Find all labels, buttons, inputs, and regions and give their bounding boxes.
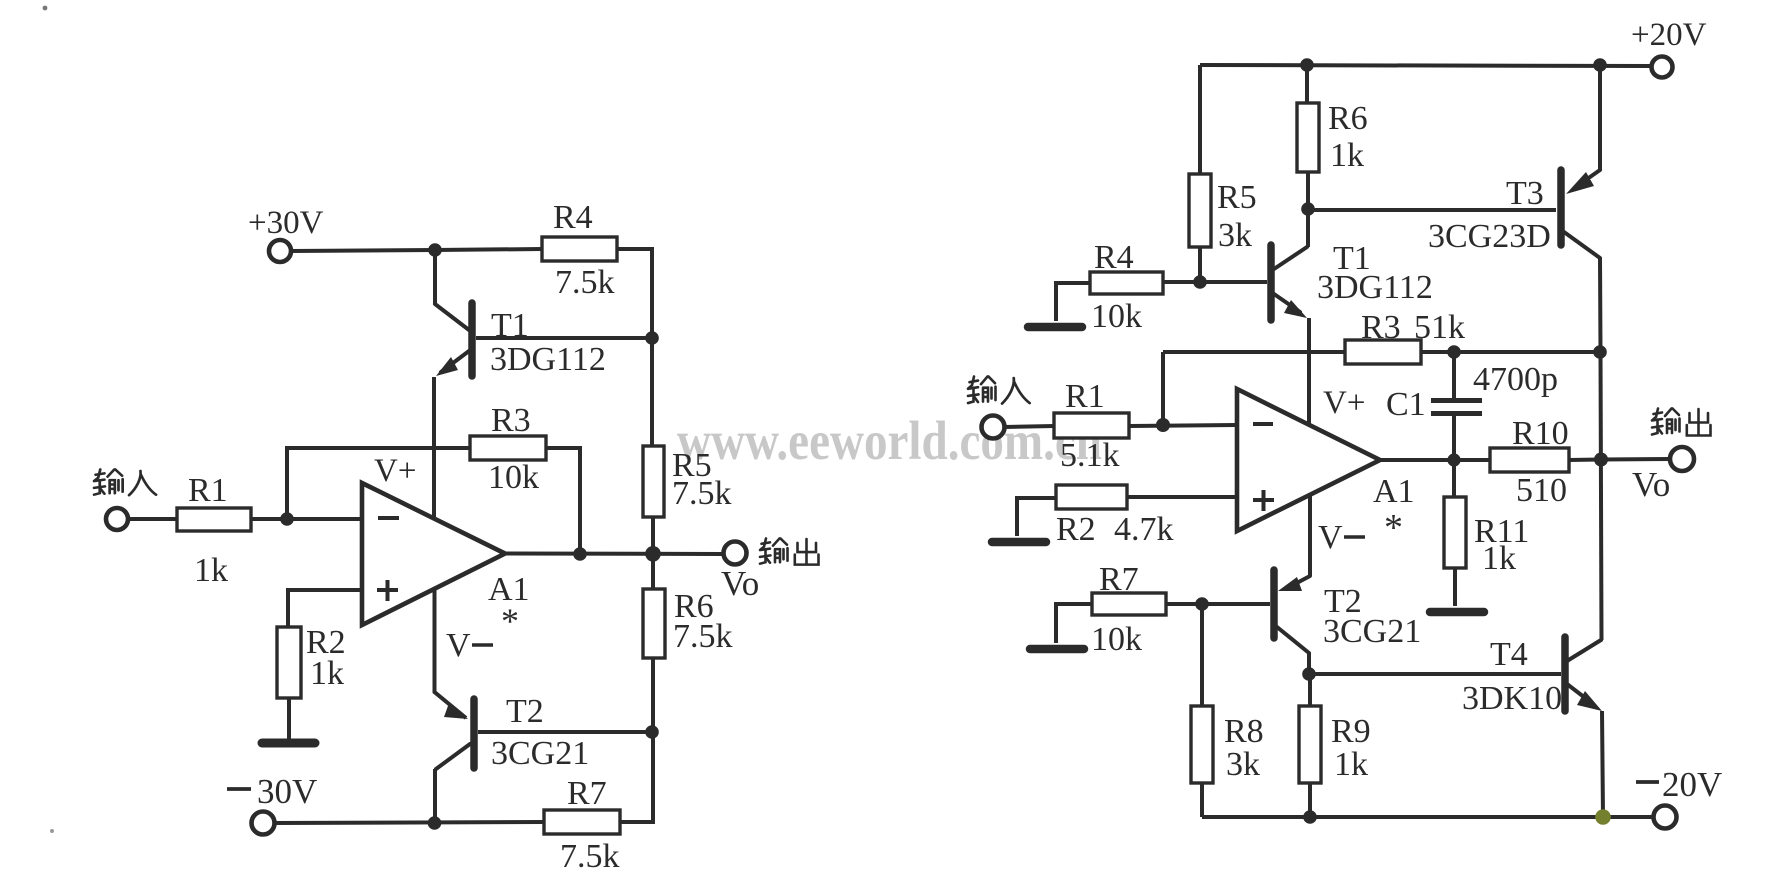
wire T2 base [478,730,652,734]
node junction R6 / T3 base / T1 collector [1301,202,1315,216]
svg-text:V+: V+ [374,453,416,489]
wire R7 to right vertical up [620,732,653,822]
svg-text:R10: R10 [1512,415,1569,452]
wire T1 collector up [1306,209,1310,247]
transistor T1 collector diagonal [435,304,469,330]
input terminal (left) [106,508,128,530]
wire R7 left to ground [1056,604,1092,643]
transistor T2 emitter arrowhead [444,703,468,719]
transistor T4 emitter arrowhead [1577,691,1602,711]
wire T4 emitter to -20V rail [1602,711,1603,817]
svg-text:7.5k: 7.5k [672,475,732,512]
svg-text:4700p: 4700p [1473,361,1558,398]
svg-text:20V: 20V [1662,765,1722,804]
wire R10 to output terminal [1569,459,1670,460]
wire +20V to T3 emitter [1598,65,1602,170]
svg-text:10k: 10k [1091,621,1142,658]
svg-text:*: * [501,601,519,641]
svg-text:R2: R2 [1056,511,1096,548]
svg-text:R7: R7 [567,775,607,812]
wire R4 to right vertical [617,249,652,338]
resistor R7 (left) [544,810,620,834]
node junction inverting input (right) [1156,418,1170,432]
node junction T2 base / R7 / R8 [1195,597,1209,611]
wire -30V rail [274,822,544,823]
wire T3 base [1308,208,1556,212]
wire rail down to R5 [1198,65,1202,174]
svg-text:R3: R3 [491,402,531,439]
resistor R2 (right) [1056,485,1127,509]
svg-text:R7: R7 [1099,561,1139,598]
terminal -20V [1654,806,1677,829]
op-amp plus sign (right) [1253,490,1274,511]
svg-text:1k: 1k [1334,746,1368,783]
ground (left R2) [262,739,315,748]
wire op-amp output (right) [1380,458,1490,462]
ground (right R2) [992,538,1046,547]
resistor R6 (left) [643,589,665,658]
svg-text:3CG23D: 3CG23D [1428,218,1551,255]
svg-text:Vo: Vo [1632,465,1670,504]
svg-text:10k: 10k [1091,298,1142,335]
svg-text:3DG112: 3DG112 [490,341,606,378]
wire R4 left to ground [1056,283,1090,321]
node 输入 input label (left) [94,469,156,495]
resistor R10 [1490,448,1569,472]
svg-text:*: * [1384,507,1403,549]
resistor R4 (right) [1090,272,1163,294]
input terminal (right) [982,416,1005,439]
wire input to R1 [128,517,177,521]
wire T2 collector to -30V rail [433,769,437,823]
wire T4 base [1309,672,1561,676]
resistor R1 (left) [177,508,251,531]
svg-text:T2: T2 [506,693,544,730]
node junction R9 on rail [1303,810,1317,824]
label -20V dash [1636,780,1659,784]
wire T3 collector to T4 collector vertical [1601,352,1602,640]
svg-text:R8: R8 [1224,713,1264,750]
ground (R11) [1430,608,1484,617]
transistor T1 emitter arrowhead [436,357,458,376]
node junction T2 collector / T4 base / R9 [1302,667,1316,681]
wire R1 to inverting input [251,517,362,521]
op-amp A1 (left) [362,483,505,625]
svg-text:R3: R3 [1361,309,1401,346]
wire + input from R2 (right) [1127,495,1237,499]
resistor R5 (right) [1189,174,1211,247]
wire V- pin [435,590,467,718]
svg-text:R4: R4 [1094,239,1134,276]
wire R6 to T2 base junction [651,658,655,732]
node 输入 input label (right) [968,377,1030,404]
capacitor C1 stem top [1452,352,1456,398]
node junction T2 base [645,725,659,739]
pin label V- dash (right) [1344,535,1365,539]
node 输出 output label (left) [760,538,819,564]
resistor R8 [1191,706,1213,783]
wire op-amp output [505,552,723,557]
node junction output / C1 / R11 [1447,453,1460,466]
wire +30V terminal to junction [291,250,435,251]
transistor T1 (left) bar [468,303,476,376]
svg-text:Vo: Vo [721,564,759,603]
wire R8 stem bottom [1200,783,1204,817]
transistor T3 bar [1557,170,1565,245]
ground (right R7) [1030,645,1084,654]
svg-text:www.eeworld.com.cn: www.eeworld.com.cn [677,410,1102,471]
svg-text:V: V [1318,519,1343,556]
svg-text:T3: T3 [1506,175,1544,212]
transistor T2 (right) bar [1270,570,1278,638]
svg-text:1k: 1k [1482,540,1516,577]
wire T2 collector down [1307,653,1311,675]
svg-text:+30V: +30V [248,205,324,241]
terminal output (left) [724,542,747,565]
wire R2 to ground [287,698,291,740]
svg-text:1k: 1k [310,655,344,692]
terminal output (right) [1670,447,1694,471]
transistor T3 emitter diagonal [1590,170,1600,177]
svg-text:3DK10: 3DK10 [1462,680,1562,717]
wire junction to R5 [650,338,654,446]
node junction rail T3 emitter [1593,58,1607,72]
svg-text:1k: 1k [1330,137,1364,174]
transistor T2 emitter arrowhead (right) [1278,577,1302,591]
svg-text:51k: 51k [1414,309,1465,346]
transistor T4 bar [1561,637,1569,711]
resistor R2 (left) [277,627,301,698]
svg-text:3k: 3k [1226,746,1260,783]
wire R6 to T3 base junction [1306,172,1310,209]
wire V- pin (right) [1293,495,1310,585]
resistor R3 (left) [470,436,546,460]
wire R9 stem top [1308,674,1312,706]
wire R8 stem top [1200,604,1204,706]
op-amp plus sign [377,580,398,601]
wire +30V vertical to T1 [433,250,437,304]
terminal -30V [252,812,275,835]
resistor R11 [1444,497,1466,568]
wire -20V rail [1202,815,1653,819]
svg-text:3CG21: 3CG21 [491,735,589,772]
speck bottom-left [50,829,54,833]
label -30V dash [227,787,251,791]
resistor R6 (right) [1297,103,1319,172]
svg-text:V: V [446,627,471,664]
wire R4 right to junction [1163,280,1200,284]
node junction C1 top [1447,345,1461,359]
transistor T2 (left) bar [470,699,478,768]
op-amp minus sign [378,516,399,520]
svg-text:3DG112: 3DG112 [1317,269,1433,306]
node junction R3 right / T3 collector [1593,345,1607,359]
wire T1 base [476,336,652,340]
transistor T3 emitter arrowhead [1566,172,1594,194]
node 输出 output label (right) [1652,409,1711,436]
node junction output (left) [645,546,661,562]
wire R3 line right segment [1421,350,1600,354]
svg-text:T1: T1 [491,307,529,344]
svg-text:A1: A1 [1373,473,1415,510]
transistor T4 collector diagonal [1567,640,1601,661]
svg-text:C1: C1 [1386,386,1426,423]
wire V+ pin [432,377,436,518]
svg-text:T4: T4 [1490,636,1528,673]
svg-text:R5: R5 [1217,179,1257,216]
resistor R1 (right) [1054,413,1129,438]
svg-text:1k: 1k [194,552,228,589]
node junction on -30V rail [428,816,442,830]
svg-text:R4: R4 [553,199,593,236]
transistor T2 collector diagonal [436,744,470,769]
svg-text:+20V: +20V [1631,17,1707,53]
transistor T1 (right) bar [1267,245,1275,320]
resistor R9 [1299,706,1321,783]
node junction rail R6 [1300,58,1314,72]
ground (right R4) [1028,323,1082,332]
transistor T1 emitter diagonal [1274,294,1300,312]
wire R5 to output node [651,517,655,554]
svg-text:3CG21: 3CG21 [1323,613,1421,650]
wire feedback left leg [287,448,470,519]
svg-text:R9: R9 [1331,713,1371,750]
node junction T1 base [645,331,659,345]
node junction R10 right [1594,453,1608,467]
svg-text:R1: R1 [188,472,228,509]
wire output node to R6 [651,554,655,589]
wire junction to R4 [435,249,542,250]
resistor R3 (right) [1345,340,1421,364]
wire T1 base [1200,280,1267,284]
wire rail down to R6 [1305,65,1309,103]
svg-text:510: 510 [1516,472,1567,509]
wire T2 base (right) [1202,602,1270,606]
svg-text:3k: 3k [1218,217,1252,254]
pin label V- dash [472,643,493,647]
node junction +30V [428,243,442,257]
node junction T1 base / R4 [1193,275,1207,289]
wire R7 right to junction [1166,602,1202,606]
wire T1 emitter to op-amp V+ [1307,318,1311,425]
svg-text:7.5k: 7.5k [673,618,733,655]
transistor T1 emitter arrowhead [1284,300,1307,318]
svg-text:V+: V+ [1323,385,1365,421]
wire T3 collector down [1598,258,1603,352]
terminal +30V [269,240,291,262]
svg-text:4.7k: 4.7k [1114,511,1174,548]
node junction R3 to output [573,547,587,561]
terminal +20V [1652,57,1673,78]
capacitor C1 stem bottom [1452,416,1456,459]
speck top-left [43,6,48,11]
op-amp minus sign (right) [1253,422,1273,426]
resistor R7 (right) [1092,593,1166,615]
svg-text:30V: 30V [257,772,317,811]
wire R1 to inverting input (right) [1129,425,1237,426]
transistor T4 emitter diagonal [1567,684,1593,704]
transistor T1 emitter diagonal [441,351,469,372]
svg-text:5.1k: 5.1k [1060,437,1120,474]
node junction T4 emitter on rail (olive) [1595,809,1611,825]
wire +20V rail [1200,65,1651,66]
resistor R4 (left) [542,237,617,261]
wire R5 to T1 base junction [1198,247,1202,282]
wire R11 stem bottom [1453,568,1457,606]
capacitor C1 plates [1431,401,1482,414]
wire R3 right leg [546,448,580,554]
wire R9 stem bottom [1308,783,1312,817]
svg-text:7.5k: 7.5k [555,264,615,301]
wire input to R1 (right) [1004,426,1054,427]
wire R3 line left segment [1163,350,1345,354]
wire R11 stem top [1452,460,1456,497]
svg-text:10k: 10k [488,459,539,496]
wire + input [288,590,362,627]
transistor T3 collector diagonal [1564,232,1600,258]
svg-text:R6: R6 [1328,100,1368,137]
wire R3 left leg down [1161,352,1165,425]
wire R2 left to ground [1017,498,1056,536]
svg-text:R1: R1 [1065,378,1105,415]
transistor T2 collector diagonal (right) [1277,627,1309,653]
svg-text:7.5k: 7.5k [560,838,620,875]
transistor T1 collector diagonal [1274,247,1307,269]
resistor R5 (left) [643,446,664,517]
node junction inverting input [280,512,294,526]
op-amp A1 (right) [1237,389,1380,531]
